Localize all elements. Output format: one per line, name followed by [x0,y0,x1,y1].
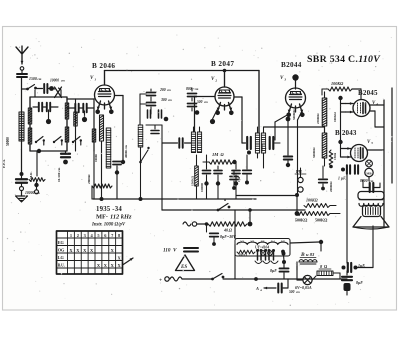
capacitor 1500cm antenna [17,74,27,77]
svg-text:40.Ω: 40.Ω [223,228,232,233]
dot rail 250 [248,208,252,212]
arrow AG [264,287,276,289]
mains bottom wire [182,278,212,280]
dot padder [63,160,68,165]
wire heater left up to rail [234,210,236,239]
dot V5 input [338,140,342,144]
capacitor 20000 right [319,179,328,182]
svg-text:Instr. 1000 Ω/pV: Instr. 1000 Ω/pV [91,223,126,228]
resistor 500K a [297,212,330,216]
arrow V5 cathode [343,156,351,158]
svg-text:8μF: 8μF [356,280,363,285]
svg-text:B 2047: B 2047 [211,60,234,68]
trimmer capacitor gang b [47,103,50,112]
dot gang bottom [37,149,41,153]
svg-text:B 2046: B 2046 [92,62,115,70]
tuning gang loop [30,97,67,151]
wire gang2 to chassis bus [93,151,95,199]
terminal EMR [35,190,39,194]
capacitor 8uF 30V [210,233,219,236]
tube V3 [286,88,306,108]
svg-text:2000Ω: 2000Ω [87,174,91,184]
svg-text:MF·: MF· [96,214,108,221]
top bus wire [105,70,260,72]
wire V1 right vertical [122,96,124,163]
padder capacitor 10-500cm [61,154,70,157]
wire right column [330,205,336,207]
wire B+ rail [162,209,305,211]
resistor 8 ohm lamp shunt [317,271,333,276]
capacitor 500cm [188,104,197,107]
arrow V4 grid [346,103,354,105]
dot cap a [204,181,208,185]
dot gang [46,119,51,124]
antenna [16,46,28,64]
dot 40 ohm right [248,222,253,227]
svg-text:B.U.: B.U. [58,264,65,268]
table arrow [123,258,134,265]
capacitor 1uF output b [355,165,358,174]
second gang loop right wire [93,99,95,151]
capacitor coupling IF2 left [247,137,251,149]
svg-text:100000: 100000 [200,183,204,193]
svg-text:u 83: u 83 [306,252,315,257]
wires cluster1 [150,89,152,91]
capacitor 8uF mains [282,260,286,264]
svg-text:V4: V4 [271,240,275,244]
MB jack [365,168,373,176]
svg-text:50000Ω: 50000Ω [292,109,296,120]
wire screen rail 127 [264,126,325,128]
wire V3 cathode down [287,121,289,152]
voltage selector plates [258,252,274,260]
svg-text:500KΩ: 500KΩ [295,218,308,223]
wires cluster2 [191,98,193,101]
svg-text:2: 2 [77,233,79,238]
wire V2 right to IF2 cap [234,96,242,98]
svg-text:8000: 8000 [360,179,368,183]
svg-text:10-500 cm: 10-500 cm [57,167,61,182]
svg-text:1MΩ: 1MΩ [333,152,337,160]
dot 500K left [295,211,300,216]
capacitor 300cm [147,103,156,106]
coil on gang left wire lower [28,128,31,144]
svg-text:50000Ω: 50000Ω [312,147,316,158]
wire speaker to cap chain [372,226,374,268]
dot cluster2 [195,110,200,115]
capacitor 10000cm coupling [37,88,43,90]
resistor 300 ohm heater [237,250,255,254]
dot 10000cm coupling [49,86,54,91]
output transformer [358,192,384,200]
wavechange switch 1a [35,141,37,143]
voltage selector dots [256,249,259,252]
tube V2 [215,87,234,106]
svg-text:V1: V1 [240,240,244,244]
capacitor 10000cm antenna ground [16,179,27,182]
trimmer capacitor gang a [39,103,42,112]
svg-text:2: 2 [214,78,217,82]
svg-text:E.P.A.: E.P.A. [2,159,6,168]
dot bus1 [100,197,104,201]
voltage selector arcs [255,261,278,264]
dot V2 anode bus [223,69,227,73]
dot 40 ohm [205,222,209,226]
capacitor grid V3 [284,157,293,160]
svg-text:cm: cm [38,77,42,81]
svg-text:V2: V2 [250,240,254,244]
svg-text:1: 1 [338,177,340,181]
wire V1 right lead [115,95,124,97]
capacitor 8000cm [370,183,374,192]
capacitor 800cm [188,94,197,97]
dot grid coupling [82,117,87,122]
dot cap c [234,181,238,185]
wire gang bottom lead [36,151,38,176]
switch B+ a [217,209,220,212]
second gang loop inner wire [75,99,77,151]
dot cluster1 [164,117,169,122]
svg-text:1M: 1M [212,152,219,157]
padding capacitor osc [151,131,159,134]
trimmer capacitor gang 2b [83,104,86,113]
capacitor 200cm [147,93,156,96]
svg-text:200: 200 [159,88,166,92]
PU jack bottom [298,187,303,192]
capacitor IF2 right [270,137,274,149]
excitation jack [366,160,373,167]
chassis bus wire [93,198,256,200]
heater filaments V1-V5 [237,242,288,244]
svg-text:300 Ω: 300 Ω [237,254,247,258]
tube V4 [353,100,370,117]
dot heater right [281,250,285,254]
svg-text:8μF=30V: 8μF=30V [220,234,236,239]
svg-text:MB: MB [366,171,372,175]
loudspeaker cone [353,217,389,228]
valve switching table [57,231,123,274]
dot right rail [329,165,333,169]
svg-text:25000Ω: 25000Ω [316,113,320,124]
svg-text:B2045: B2045 [358,89,378,97]
wire 40ohm to rail [249,210,251,222]
svg-text:ES: ES [180,265,187,270]
second gang loop top rail [67,98,94,100]
svg-text:100KΩ: 100KΩ [333,112,337,122]
svg-text:B: B [300,252,305,258]
wire rail x392 [391,88,393,183]
svg-text:6V=0,05A: 6V=0,05A [295,285,312,290]
capacitor 100000cm a [203,171,211,174]
svg-text:50000: 50000 [6,137,10,146]
PU jack top [298,177,303,182]
crossed trimmer symbol [55,87,62,98]
wire choke [296,262,298,270]
wire V4 anode right [370,104,384,106]
svg-text:110: 110 [163,248,171,254]
wire V5 anode right [368,149,385,151]
wire antenna down [21,78,23,173]
arrow V4 cathode [346,111,354,113]
junction dot antenna bottom [20,172,24,176]
svg-text:4: 4 [375,102,378,106]
fuse squiggle 2 [183,222,191,226]
IF transformer 1 secondary [197,132,201,153]
svg-text:SBR 534 C.110V: SBR 534 C.110V [307,54,381,65]
ground antenna [21,191,23,196]
svg-text:V3: V3 [261,240,265,244]
svg-text:OG: OG [58,248,65,253]
switch osc [139,161,142,164]
svg-text:V5: V5 [281,240,285,244]
mains lead lines [184,248,198,252]
wire bus down to IF2 [258,71,260,134]
svg-text:500: 500 [197,100,203,104]
oscillator coil [138,125,143,147]
dot cap b [216,181,220,185]
wire through gang caps [33,106,38,108]
capacitor cluster1 lower b [159,110,162,118]
svg-text:+cm: +cm [193,87,199,91]
wire V3 right pin down [298,112,302,120]
capacitor 10000cm b [214,171,222,174]
svg-text:112 kHz: 112 kHz [110,214,132,221]
svg-text:500: 500 [289,290,295,294]
capacitor 500cm AG [278,284,281,293]
svg-text:1: 1 [70,233,72,238]
wire MB to cap [368,177,370,181]
capacitor 1uF rail [342,266,346,270]
resistor 100K [328,87,352,91]
coil V1 cathode [106,128,111,168]
dot 1M right [232,160,236,164]
heater chain box [235,239,290,257]
wire V3 grid to IF2 [275,114,289,122]
dial lamps [261,251,266,256]
svg-text:300: 300 [160,98,167,102]
wire IF1 top [193,127,195,132]
resistor 40000 ohm V1 cathode [100,115,104,141]
resistor zig vertical right [329,150,333,166]
capacitor coupling IF1 [179,138,182,148]
svg-text:8μF: 8μF [270,268,277,273]
capacitor 8uF rail [342,277,352,280]
grid cap V3 [292,74,298,80]
wire heater left [234,245,236,280]
capacitor bus c [232,171,240,174]
tube V5 [351,145,368,162]
electrolytic body [344,283,351,291]
resistor 1M [209,160,233,164]
wire V1 anode to top bus [104,71,106,86]
svg-text:1935 -34: 1935 -34 [96,206,122,213]
dot heater top right [319,240,323,244]
coil on gang right wire upper [65,103,68,119]
scan speckle noise [7,35,393,306]
svg-text:PU: PU [296,169,303,174]
mains fuse squiggle [170,277,182,281]
resistor 2000 ohm [92,184,112,188]
dot V3 cathode [286,117,291,122]
svg-text:3: 3 [283,77,286,81]
terminal ring ground [20,187,24,191]
svg-text:V: V [173,248,177,254]
IF transformer 2 primary [255,133,259,153]
wire V1 down [101,141,103,184]
wire V4 left rail [340,98,342,141]
wire V2 grid to IF1 [195,96,216,98]
wire through gang2 caps [67,107,75,109]
choke Bu83 [299,260,317,262]
svg-text:100KΩ: 100KΩ [331,81,344,86]
mains switch [211,278,214,281]
dot osc bus [139,197,143,201]
dot v3c [245,181,249,185]
dot b+ [295,193,299,197]
IF transformer 2 secondary [261,133,265,153]
arrow V5 grid [343,148,351,150]
svg-text:40000 cm: 40000 cm [124,145,128,158]
svg-text:10000: 10000 [25,191,35,195]
dot V2 cathode [210,119,215,124]
capacitor 1uF V3 cathode [243,170,252,173]
earth triangle ES [176,255,195,271]
capacitor left small [230,177,238,180]
coil on gang left wire upper [28,108,31,124]
svg-text:1: 1 [94,77,96,81]
wire osc cap link [154,125,156,129]
antenna terminal [20,67,24,71]
dot V1 cathode [115,170,119,174]
wire V4 right down [370,110,375,112]
wires IF2 [257,127,259,133]
switch antenna coupling [22,88,28,90]
svg-text:EG: EG [58,240,65,245]
svg-text:500KΩ: 500KΩ [315,218,328,223]
pilot lamp [303,275,312,284]
svg-text:1500: 1500 [29,77,37,81]
coil on inner wire [74,112,77,126]
capacitor cluster1 lower a [148,110,151,118]
dot EMR [34,183,38,187]
svg-text:20000Ω: 20000Ω [329,181,333,192]
wire rail x347 [346,165,348,263]
dot V1 right bottom [121,160,125,164]
svg-text:LG: LG [58,255,65,260]
voice coil [363,206,381,217]
wavechange switch 2 [72,141,74,143]
svg-text:B2044: B2044 [281,61,302,69]
dot selector [282,252,286,256]
wire V2 anode to bus [224,71,226,88]
svg-text:B 2043: B 2043 [335,129,357,137]
wire gang top leads [34,90,36,97]
IF transformer 1 primary [191,132,195,153]
wire rail x384 [383,100,385,226]
svg-text:10000: 10000 [94,154,98,162]
svg-text:μF.: μF. [340,177,346,181]
coil on gang right wire lower [65,127,68,142]
resistor 40 ohm [208,222,247,226]
wavechange switch 1b [53,141,55,143]
trimmer capacitor gang 2a [75,104,78,113]
svg-text:A: A [255,286,259,291]
dot mains [254,277,258,281]
antenna coil L1 [19,112,24,141]
capacitor 1uF output a [341,168,345,172]
tube V1 [95,85,115,105]
capacitor V1 cathode bypass [113,162,121,165]
svg-text:800: 800 [186,87,192,91]
svg-text:150KΩ: 150KΩ [191,175,195,186]
wire bus 195 [236,195,297,197]
coil on right wire [92,129,95,142]
dot V4 input [338,96,342,100]
svg-text:10000: 10000 [50,79,59,83]
